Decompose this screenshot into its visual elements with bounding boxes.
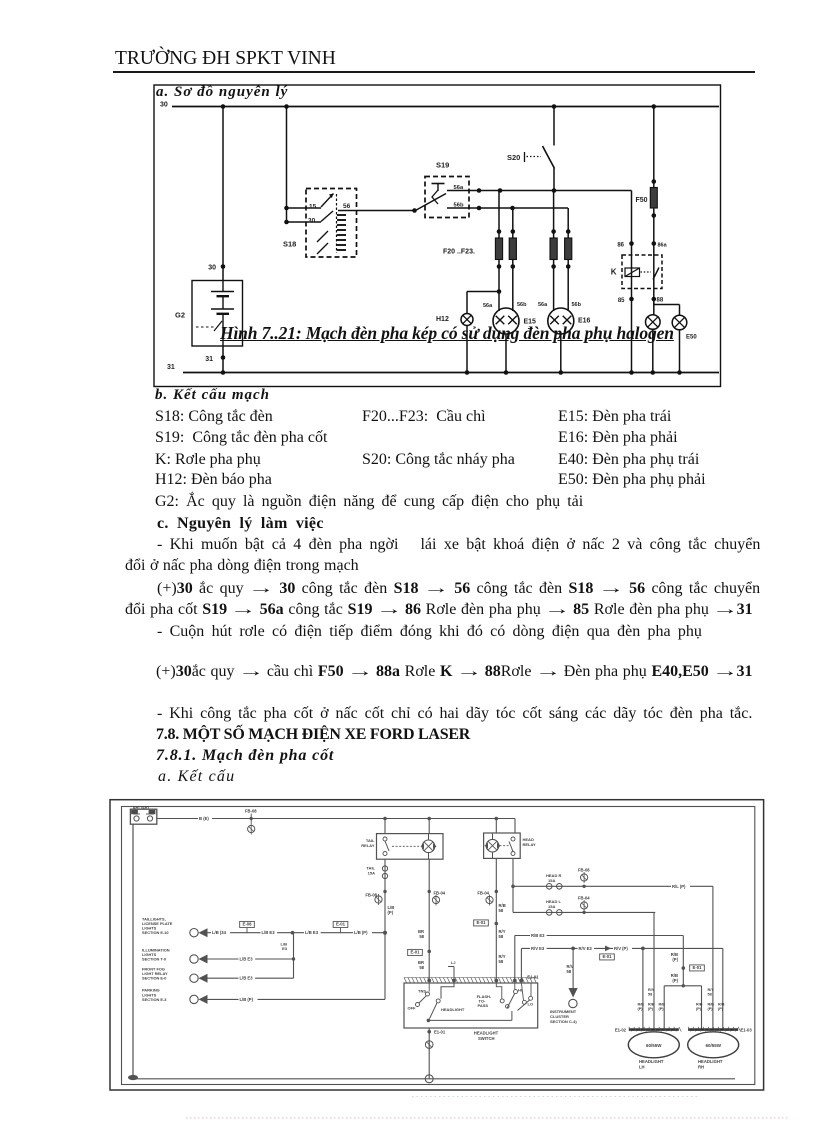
svg-text:58: 58	[708, 993, 712, 997]
svg-text:(P): (P)	[388, 910, 394, 915]
svg-text:(P): (P)	[708, 1007, 714, 1011]
svg-text:E-01: E-01	[602, 954, 612, 959]
svg-text:LJ: LJ	[451, 961, 455, 965]
svg-text:R/L (P): R/L (P)	[672, 884, 686, 889]
svg-text:R/B: R/B	[708, 1003, 715, 1007]
svg-text:RELAY: RELAY	[523, 842, 537, 847]
svg-text:E3: E3	[282, 946, 288, 951]
svg-text:OFF: OFF	[408, 1006, 417, 1011]
svg-text:HEADLIGHT: HEADLIGHT	[698, 1059, 723, 1064]
svg-text:R/B: R/B	[718, 1003, 725, 1007]
svg-text:L/B (P): L/B (P)	[354, 930, 368, 935]
svg-text:R/B: R/B	[638, 1003, 645, 1007]
svg-text:R/V E3: R/V E3	[579, 946, 593, 951]
svg-text:E-01: E-01	[410, 950, 420, 955]
svg-text:R/Y: R/Y	[648, 988, 655, 992]
svg-text:58: 58	[567, 969, 572, 974]
svg-text:R/V E3: R/V E3	[531, 946, 545, 951]
svg-text:RELAY: RELAY	[361, 843, 375, 848]
svg-text:SECTION C-4): SECTION C-4)	[550, 1019, 577, 1024]
svg-text:HI: HI	[518, 988, 522, 993]
svg-text:(P): (P)	[718, 1007, 724, 1011]
svg-text:15A: 15A	[548, 904, 555, 909]
svg-text:58: 58	[419, 934, 424, 939]
svg-text:HEADLIGHT: HEADLIGHT	[639, 1059, 664, 1064]
svg-text:L/B E3: L/B E3	[240, 957, 254, 962]
svg-text:L/B (P): L/B (P)	[240, 997, 254, 1002]
svg-text:FB-04: FB-04	[477, 891, 489, 896]
svg-text:E1-01: E1-01	[434, 1030, 446, 1035]
svg-text:E-08: E-08	[242, 922, 252, 927]
svg-text:E1-02: E1-02	[615, 1028, 627, 1033]
svg-text:R/B E3: R/B E3	[531, 933, 545, 938]
svg-text:LO: LO	[528, 1002, 534, 1007]
svg-text:PASS: PASS	[478, 1003, 489, 1008]
svg-text:FB-08: FB-08	[245, 809, 257, 814]
svg-text:E-01: E-01	[476, 920, 486, 925]
svg-text:15A: 15A	[548, 878, 555, 883]
svg-text:RH: RH	[698, 1065, 704, 1070]
svg-text:E-01: E-01	[692, 965, 702, 970]
svg-text:SECTION E-3: SECTION E-3	[142, 997, 167, 1002]
svg-text:L/B E3: L/B E3	[262, 930, 276, 935]
svg-text:(P): (P)	[696, 1007, 702, 1011]
svg-text:58: 58	[499, 959, 504, 964]
svg-text:15A: 15A	[368, 871, 375, 876]
svg-text:(P): (P)	[648, 1007, 654, 1011]
svg-text:R/Y: R/Y	[708, 988, 715, 992]
svg-text:(P): (P)	[659, 1007, 665, 1011]
svg-text:R/V (P): R/V (P)	[614, 946, 628, 951]
svg-text:E-01: E-01	[336, 922, 346, 927]
svg-text:58: 58	[499, 908, 504, 913]
svg-text:FB-08: FB-08	[578, 868, 590, 873]
svg-text:L/B E3: L/B E3	[240, 976, 254, 981]
svg-text:SWITCH: SWITCH	[478, 1036, 495, 1041]
svg-text:HEADLIGHT: HEADLIGHT	[474, 1031, 499, 1036]
svg-text:R/B: R/B	[696, 1003, 703, 1007]
svg-text:58: 58	[499, 934, 504, 939]
svg-text:R/B: R/B	[648, 1003, 655, 1007]
svg-text:(P): (P)	[672, 957, 678, 962]
svg-text:58: 58	[419, 965, 424, 970]
svg-text:60/55W: 60/55W	[646, 1043, 662, 1048]
svg-text:SECTION E-0: SECTION E-0	[142, 976, 166, 981]
svg-text:58: 58	[648, 993, 652, 997]
svg-text:(P): (P)	[672, 978, 678, 983]
svg-text:L/B (34: L/B (34	[212, 930, 227, 935]
svg-text:E1-01: E1-01	[527, 975, 539, 980]
svg-text:L/B E3: L/B E3	[305, 930, 319, 935]
svg-text:R/B: R/B	[659, 1003, 666, 1007]
svg-text:B (E): B (E)	[199, 816, 209, 821]
svg-text:SECTION E-10: SECTION E-10	[142, 930, 169, 935]
svg-text:(P): (P)	[638, 1007, 644, 1011]
svg-text:SECTION T-0: SECTION T-0	[142, 957, 166, 962]
svg-text:LH: LH	[639, 1065, 645, 1070]
svg-text:BATTERY: BATTERY	[133, 806, 150, 810]
svg-text:TNS: TNS	[418, 989, 426, 994]
svg-text:HEADLIGHT: HEADLIGHT	[441, 1007, 465, 1012]
svg-text:E1-03: E1-03	[741, 1028, 753, 1033]
svg-text:60/55W: 60/55W	[705, 1043, 721, 1048]
svg-text:FB-04: FB-04	[434, 891, 446, 896]
svg-text:FB-04: FB-04	[578, 896, 590, 901]
